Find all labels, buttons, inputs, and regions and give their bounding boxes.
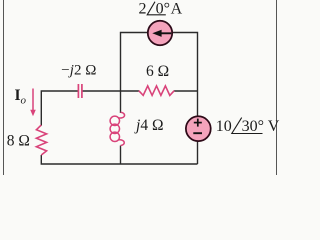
wire middle-center: capacitor to 6ohm resistor xyxy=(82,90,139,92)
svg-text:6 Ω: 6 Ω xyxy=(146,63,169,80)
svg-text:8 Ω: 8 Ω xyxy=(7,132,30,149)
inductor j4 ohm (coil) xyxy=(110,112,124,145)
resistor 8 ohm (vertical zigzag) xyxy=(36,125,46,155)
page rule left xyxy=(3,0,5,175)
svg-text:−j2 Ω: −j2 Ω xyxy=(61,63,96,79)
current source 2/0 A xyxy=(148,21,172,45)
svg-text:A: A xyxy=(171,1,183,18)
current arrow Io xyxy=(30,89,36,117)
label 10/30 V xyxy=(216,118,280,135)
capacitor -j2 ohm (plates) xyxy=(78,84,82,98)
svg-text:j4 Ω: j4 Ω xyxy=(134,117,163,134)
wire right vertical: node to voltage source xyxy=(197,91,199,117)
wire middle-left: left vertical top to capacitor xyxy=(41,91,78,126)
svg-text:2: 2 xyxy=(139,1,147,18)
wire right vertical: voltage source to bottom xyxy=(197,141,199,164)
voltage source 10/30 V xyxy=(186,116,211,141)
label 2/0 A xyxy=(139,1,183,18)
wire inductor top xyxy=(120,91,122,113)
resistor 6 ohm (horizontal zigzag) xyxy=(139,86,174,96)
wire inductor bottom xyxy=(120,146,122,165)
wire top-right: current source to right vertical xyxy=(172,33,198,92)
wire middle-right: 6ohm resistor to right vertical xyxy=(174,90,198,92)
wire top-left: node to current source xyxy=(121,33,149,92)
wire bottom xyxy=(41,155,197,164)
svg-text:30° V: 30° V xyxy=(242,118,280,135)
svg-text:10: 10 xyxy=(216,118,232,135)
page rule right xyxy=(276,0,278,175)
